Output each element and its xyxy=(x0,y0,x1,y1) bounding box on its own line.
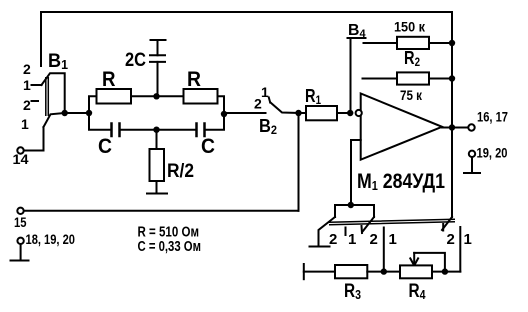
resistor R1 xyxy=(306,106,337,120)
switch B3 gang bar xyxy=(329,219,455,225)
switch B3 right contact wire to R4 xyxy=(459,227,461,272)
resistor R (left) xyxy=(97,89,132,104)
terminal 16,17 circle xyxy=(468,124,474,130)
svg-text:1: 1 xyxy=(464,231,472,248)
svg-text:2: 2 xyxy=(23,97,31,113)
wire R1 to op-amp inverting input xyxy=(337,112,350,114)
switch B2 blade xyxy=(271,103,299,114)
switch B1 gang link xyxy=(46,77,49,116)
wire R/2 to ground xyxy=(156,181,158,194)
ground terminal 19,20 xyxy=(464,157,480,173)
svg-text:R/2: R/2 xyxy=(167,161,194,182)
op-amp inverting input circle xyxy=(356,110,362,116)
node 75k right dot xyxy=(449,75,455,81)
node center top dot xyxy=(153,93,159,99)
node output dot xyxy=(449,124,455,130)
capacitor 2C plates xyxy=(150,55,165,62)
svg-text:1: 1 xyxy=(23,77,31,93)
svg-text:16, 17: 16, 17 xyxy=(477,110,508,125)
svg-text:18, 19, 20: 18, 19, 20 xyxy=(26,232,76,247)
svg-text:М1 284УД1: М1 284УД1 xyxy=(357,170,445,193)
potentiometer R4 xyxy=(400,265,432,278)
wire feedback left drop to B1 contact 2 xyxy=(40,12,42,66)
switch B1 contact 2 bar xyxy=(32,100,39,102)
op-amp U1 triangle xyxy=(361,94,442,160)
wire 150k to right rail xyxy=(429,42,452,44)
wire 2C to center top node xyxy=(157,62,159,96)
node bracket dot xyxy=(348,202,354,208)
resistor R/2 xyxy=(150,149,165,181)
svg-text:C: C xyxy=(201,135,215,158)
node twin-T output dot xyxy=(221,111,227,117)
wire input node down to C left xyxy=(89,113,111,130)
wire to R3 xyxy=(304,271,335,273)
node R4 wiper junction dot xyxy=(442,268,448,274)
svg-text:2: 2 xyxy=(329,231,337,248)
terminal 15 circle xyxy=(17,208,23,214)
wire op-amp output xyxy=(442,127,468,129)
switch B2 contact 1 tick xyxy=(269,98,270,103)
switch B1 bottom blade xyxy=(44,113,65,127)
resistor R2 (75 к) xyxy=(397,72,429,84)
svg-text:2: 2 xyxy=(447,231,455,248)
wire 15 row up to R1 left node xyxy=(298,113,300,211)
svg-text:C: C xyxy=(98,135,112,158)
wire C right to right node xyxy=(206,114,224,130)
node B2 pole dot xyxy=(295,110,301,116)
wire R right to right node xyxy=(218,96,225,114)
switch B1 contact 1 bar xyxy=(32,84,42,86)
svg-text:2: 2 xyxy=(370,231,378,248)
switch B3 right arm from output xyxy=(442,217,452,230)
node 150k right dot xyxy=(449,40,455,46)
wire top feedback xyxy=(41,11,452,13)
wire 75k to right rail xyxy=(429,78,452,80)
terminal bar left of R3 xyxy=(303,264,305,279)
wire B4 to 150k xyxy=(364,42,398,44)
capacitor C (right) plates xyxy=(197,122,205,137)
wire feedback right drop xyxy=(451,12,453,217)
svg-text:2: 2 xyxy=(23,61,31,77)
svg-text:1: 1 xyxy=(389,231,397,248)
wire B2 to R1 xyxy=(299,112,307,114)
ground R/2 xyxy=(147,193,167,195)
terminal 18,19,20 circle xyxy=(17,238,23,244)
switch B4 blade bar xyxy=(348,37,366,39)
svg-text:75 к: 75 к xyxy=(400,87,423,103)
svg-text:15: 15 xyxy=(14,214,27,230)
svg-text:14: 14 xyxy=(13,151,29,167)
svg-text:2C: 2C xyxy=(125,50,146,71)
svg-text:R: R xyxy=(102,68,116,91)
ground B3 xyxy=(310,246,330,248)
wire B4 pole down to inverting node xyxy=(350,39,352,113)
svg-text:C = 0,33 Ом: C = 0,33 Ом xyxy=(138,239,202,255)
op-amp non-inverting input wire xyxy=(351,140,361,205)
resistor R/2 stub top xyxy=(156,130,158,149)
resistor R3 xyxy=(335,265,367,278)
switch B3 middle arm hook xyxy=(361,226,364,233)
svg-text:1: 1 xyxy=(348,231,356,248)
terminal 19,20 circle xyxy=(469,151,475,157)
terminal 14 circle xyxy=(17,147,23,153)
switch B3 section2 contact wire to R3/R4 xyxy=(383,228,385,272)
potentiometer R4 wiper arrow xyxy=(413,253,415,265)
switch B3 middle arm xyxy=(363,217,374,231)
svg-text:150 к: 150 к xyxy=(394,19,426,35)
node B1 pole dot xyxy=(61,110,67,116)
switch B1 top blade xyxy=(42,73,65,113)
switch B3 section1 contact tick xyxy=(345,228,347,236)
svg-text:R: R xyxy=(187,68,201,91)
wire terminal 15 row xyxy=(24,210,299,212)
wire B4 to 75k xyxy=(363,78,398,80)
wire C left to center bottom node xyxy=(121,129,196,131)
capacitor C (left) plates xyxy=(112,122,120,137)
capacitor 2C top open terminal xyxy=(151,40,166,55)
svg-text:1: 1 xyxy=(21,116,29,132)
switch B3 right arm hook xyxy=(442,224,444,231)
resistor R (right) xyxy=(184,89,218,104)
wire B1 pole to twin-T input node xyxy=(65,112,89,114)
svg-text:19, 20: 19, 20 xyxy=(477,146,508,161)
wire twin-T output to B2 contact 2 xyxy=(224,112,266,114)
wire R left to center top node xyxy=(131,95,184,97)
switch B3 bracket to op-amp input xyxy=(335,205,374,217)
wire R3 to R4 xyxy=(367,271,400,273)
potentiometer R4 wiper wire xyxy=(414,253,445,272)
ground terminal 18,19,20 xyxy=(11,244,29,261)
node R3/R4 junction dot xyxy=(381,268,387,274)
resistor R2 (150 к) xyxy=(397,37,429,49)
wire input node up to R left xyxy=(89,96,97,113)
wire to terminal 14 xyxy=(24,127,44,151)
node center bottom dot xyxy=(153,127,159,133)
switch B3 left arm to ground xyxy=(319,217,336,246)
node inverting input dot xyxy=(347,110,353,116)
node twin-T input dot xyxy=(86,110,92,116)
wire R4 to right contact xyxy=(432,271,460,273)
